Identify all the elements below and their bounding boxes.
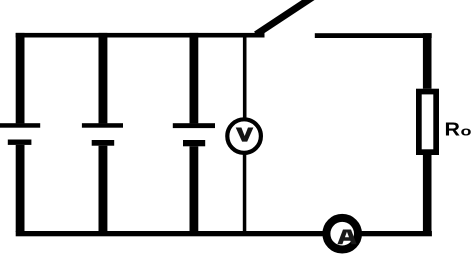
wire: branch 1 lower segment xyxy=(16,145,25,232)
wire: voltmeter branch upper (thin) xyxy=(243,37,247,119)
wire: top bus (left section, battery branches to switch) xyxy=(16,33,265,38)
wire: bottom bus xyxy=(16,231,432,236)
battery B3 positive plate (long) xyxy=(173,123,215,128)
wire: branch 3 lower segment xyxy=(190,146,199,232)
battery B3 negative plate (short) xyxy=(183,140,205,146)
wire: voltmeter branch lower (thin) xyxy=(243,153,247,232)
voltmeter V1 xyxy=(227,119,261,153)
wire: right bus upper segment xyxy=(423,33,432,88)
switch S1 (open blade) xyxy=(256,0,314,35)
svg-text:R: R xyxy=(445,119,461,139)
svg-text:o: o xyxy=(461,124,473,138)
label R0 value xyxy=(445,119,473,139)
battery B1 negative plate (short) xyxy=(8,140,32,145)
battery B2 positive plate (long) xyxy=(82,123,123,128)
wire: branch 2 lower segment xyxy=(99,146,108,232)
wire: top bus (right section, switch contact to right corner) xyxy=(315,33,432,38)
wire: branch 3 upper segment xyxy=(190,33,199,124)
wire: branch 1 upper segment xyxy=(16,33,25,124)
wire: branch 2 upper segment xyxy=(99,33,108,124)
resistor R0 body xyxy=(419,92,436,153)
battery B1 positive plate (long) xyxy=(0,123,40,128)
battery B2 negative plate (short) xyxy=(92,140,115,146)
wire: right bus lower segment xyxy=(423,155,432,232)
ammeter A1 xyxy=(326,218,358,250)
